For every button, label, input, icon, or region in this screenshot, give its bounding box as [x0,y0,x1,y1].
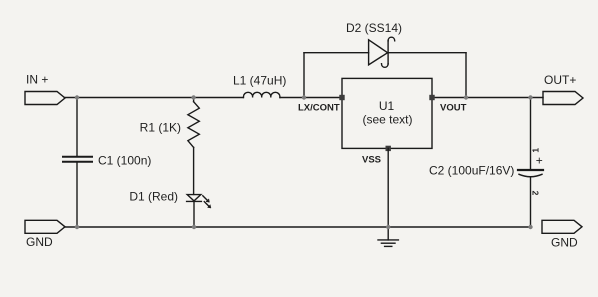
wire D1 to bottom rail [193,201,195,227]
inductor L1 [244,92,280,97]
svg-text:VOUT: VOUT [440,103,467,114]
svg-text:GND: GND [551,235,578,249]
wire D2 right horizontal [388,52,466,54]
terminal GND left [25,220,65,233]
node C2 bottom junction [528,225,532,229]
resistor R1 [188,102,199,148]
wire left vertical (IN+ node down through C1 to GND rail) [76,98,78,157]
svg-text:OUT+: OUT+ [544,73,576,87]
svg-text:C2 (100uF/16V): C2 (100uF/16V) [429,164,514,178]
capacitor C2 wires [530,98,532,170]
wire R1 to D1 [193,147,195,194]
pin VSS [386,146,391,151]
LED D1 [187,195,211,208]
svg-text:LX/CONT: LX/CONT [298,103,340,114]
capacitor C2 [518,170,543,177]
node VOUT junction [464,95,468,99]
diode D2 (Schottky) [369,37,395,67]
wire bottom rail [65,226,531,228]
svg-text:L1 (47uH): L1 (47uH) [233,74,286,88]
wire VSS to ground [387,148,389,227]
node ground junction [386,225,390,229]
wire top rail: VOUT pin to OUT+ tag [432,97,543,99]
svg-text:D1 (Red): D1 (Red) [129,189,178,203]
wire top rail: L1 to U1 left pin [280,97,342,99]
pin LX/CONT [339,95,344,100]
svg-text:R1 (1K): R1 (1K) [140,120,181,134]
svg-text:U1: U1 [379,99,395,113]
svg-text:GND: GND [26,235,53,249]
svg-text:2: 2 [531,191,541,196]
op-amp U1 box [342,78,432,148]
terminal IN+ [25,92,65,105]
node D1 bottom junction [192,225,196,229]
node LX/CONT junction [302,95,306,99]
svg-text:D2 (SS14): D2 (SS14) [346,21,402,35]
terminal OUT+ [543,92,583,105]
svg-text:IN +: IN + [26,73,48,87]
wire D2 right vertical [465,53,467,98]
svg-text:VSS: VSS [362,154,381,165]
node R1 top junction [191,95,195,99]
capacitor C1 [63,157,92,162]
wire D2 left horizontal [304,52,369,54]
svg-text:+: + [536,153,543,167]
svg-text:(see text): (see text) [362,113,412,127]
ground [378,227,398,246]
wire R1 branch top [193,98,195,102]
svg-text:C1 (100n): C1 (100n) [98,154,151,168]
terminal GND right [542,220,582,233]
pin VOUT [429,95,434,100]
wire top rail: IN+ tip to L1 [65,97,244,99]
node GND-left junction [75,225,79,229]
svg-text:1: 1 [530,148,540,153]
node IN junction [75,95,79,99]
wire D2 left vertical [303,53,305,98]
node OUT junction [528,95,532,99]
